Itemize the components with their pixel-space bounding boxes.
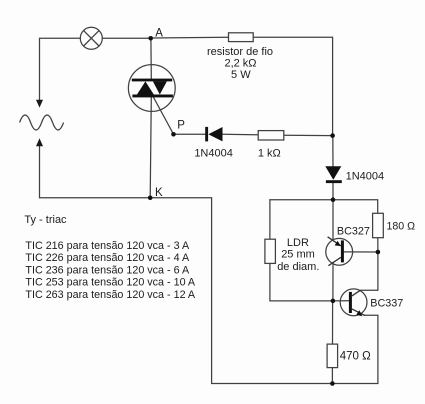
- svg-text:1 kΩ: 1 kΩ: [258, 148, 281, 160]
- wire resistor to top-right corner and down right rail: [253, 37, 332, 135]
- wire BC337 emitter horizontal to right rail: [365, 314, 378, 316]
- svg-text:P: P: [177, 119, 185, 131]
- wire BC327 base lead to 180R node: [344, 251, 378, 253]
- wire lamp to node A: [102, 37, 150, 39]
- wire gate from triac to node P: [154, 98, 174, 135]
- wire triac MT1 down to node K: [150, 97, 151, 197]
- node BC327 base / 180R: [376, 250, 381, 255]
- wire LDR top branch: [269, 200, 271, 240]
- ac source: [20, 115, 64, 130]
- wire diode D1 to resistor 1k: [222, 133, 258, 136]
- wire top-left horizontal from AC corner to lamp: [40, 38, 81, 100]
- wire sub-circuit top rail: [270, 200, 378, 214]
- lamp L1: [80, 27, 102, 49]
- diode D2 1N4004 (vertical): [325, 166, 342, 183]
- wire LDR bottom branch to base node: [270, 263, 333, 301]
- node right rail / 1k junction: [330, 133, 335, 138]
- diode D1 1N4004 (horizontal): [205, 127, 222, 141]
- triac TY: [128, 65, 175, 112]
- wire node A down to triac MT2: [150, 38, 152, 79]
- wire BC327 node down then left to BC337 collector: [361, 252, 378, 290]
- wire 470R top lead: [332, 301, 334, 344]
- transistor Q2 BC337: [340, 289, 367, 317]
- wire bottom rail from left corner to 470R node: [212, 383, 333, 385]
- transistor Q1 BC327: [326, 237, 353, 266]
- wire node A to wirewound resistor: [151, 36, 229, 39]
- svg-text:Ty - triac: Ty - triac: [24, 214, 67, 226]
- svg-text:5 W: 5 W: [231, 69, 251, 81]
- LDR: [265, 239, 276, 263]
- node 470R bottom: [330, 381, 335, 386]
- svg-text:TIC 216 para tensão 120 vca -: TIC 216 para tensão 120 vca - 3 A: [25, 240, 190, 252]
- node P: [171, 132, 176, 137]
- svg-text:TIC 263 para tensão 120 vca -: TIC 263 para tensão 120 vca - 12 A: [25, 289, 196, 301]
- wire BC327 collector rail down to base node of BC337: [332, 262, 334, 301]
- wire node P to diode D1: [174, 133, 206, 135]
- ac source bottom arrowhead: [36, 138, 43, 146]
- svg-text:resistor de fio: resistor de fio: [207, 46, 273, 58]
- ac source top arrowhead: [36, 100, 43, 108]
- wire 470R bottom lead: [331, 368, 333, 384]
- node sub-circuit top: [331, 197, 336, 202]
- wire bottom rail from 470R node to right corner and up to BC337 emitter: [332, 315, 378, 383]
- wire AC source bottom lead down to bottom-left rail: [39, 144, 41, 198]
- svg-text:de diam.: de diam.: [277, 261, 319, 273]
- svg-text:470 Ω: 470 Ω: [340, 351, 371, 363]
- svg-text:TIC 226 para tensão 120 vca -: TIC 226 para tensão 120 vca - 4 A: [25, 252, 190, 264]
- wire 180R bottom to BC327 base node: [377, 238, 379, 252]
- wire resistor 1k to right-rail node: [284, 134, 333, 136]
- wire BC337 base lead to node: [333, 300, 349, 302]
- node K: [148, 196, 153, 201]
- svg-text:LDR: LDR: [287, 237, 309, 249]
- svg-text:K: K: [155, 187, 163, 199]
- node BC337 base / LDR: [331, 299, 336, 304]
- svg-text:1N4004: 1N4004: [346, 171, 385, 183]
- svg-text:TIC 253 para tensão 120 vca -: TIC 253 para tensão 120 vca - 10 A: [25, 277, 196, 289]
- resistor R3 180R: [373, 213, 384, 237]
- svg-text:TIC 236 para tensão 120 vca -: TIC 236 para tensão 120 vca - 6 A: [25, 264, 190, 276]
- resistor R2 1k: [258, 131, 284, 140]
- wire right rail between 1k node and diode D2: [332, 136, 334, 167]
- svg-text:180 Ω: 180 Ω: [387, 220, 416, 232]
- wire bottom-left rail from AC to K and right, then down: [40, 198, 212, 384]
- svg-text:2,2 kΩ: 2,2 kΩ: [224, 58, 256, 70]
- resistor R1 (resistor de fio 2,2k 5W): [229, 33, 254, 42]
- svg-text:1N4004: 1N4004: [194, 148, 233, 160]
- wire right rail diode D2 to sub-circuit node: [332, 183, 334, 200]
- svg-text:BC337: BC337: [370, 298, 403, 310]
- wire BC327 emitter rail from top node down: [332, 200, 334, 241]
- resistor R4 470R: [327, 344, 338, 368]
- svg-text:25 mm: 25 mm: [281, 249, 315, 261]
- svg-text:BC327: BC327: [337, 225, 370, 237]
- node A: [148, 36, 153, 41]
- svg-text:A: A: [155, 27, 163, 39]
